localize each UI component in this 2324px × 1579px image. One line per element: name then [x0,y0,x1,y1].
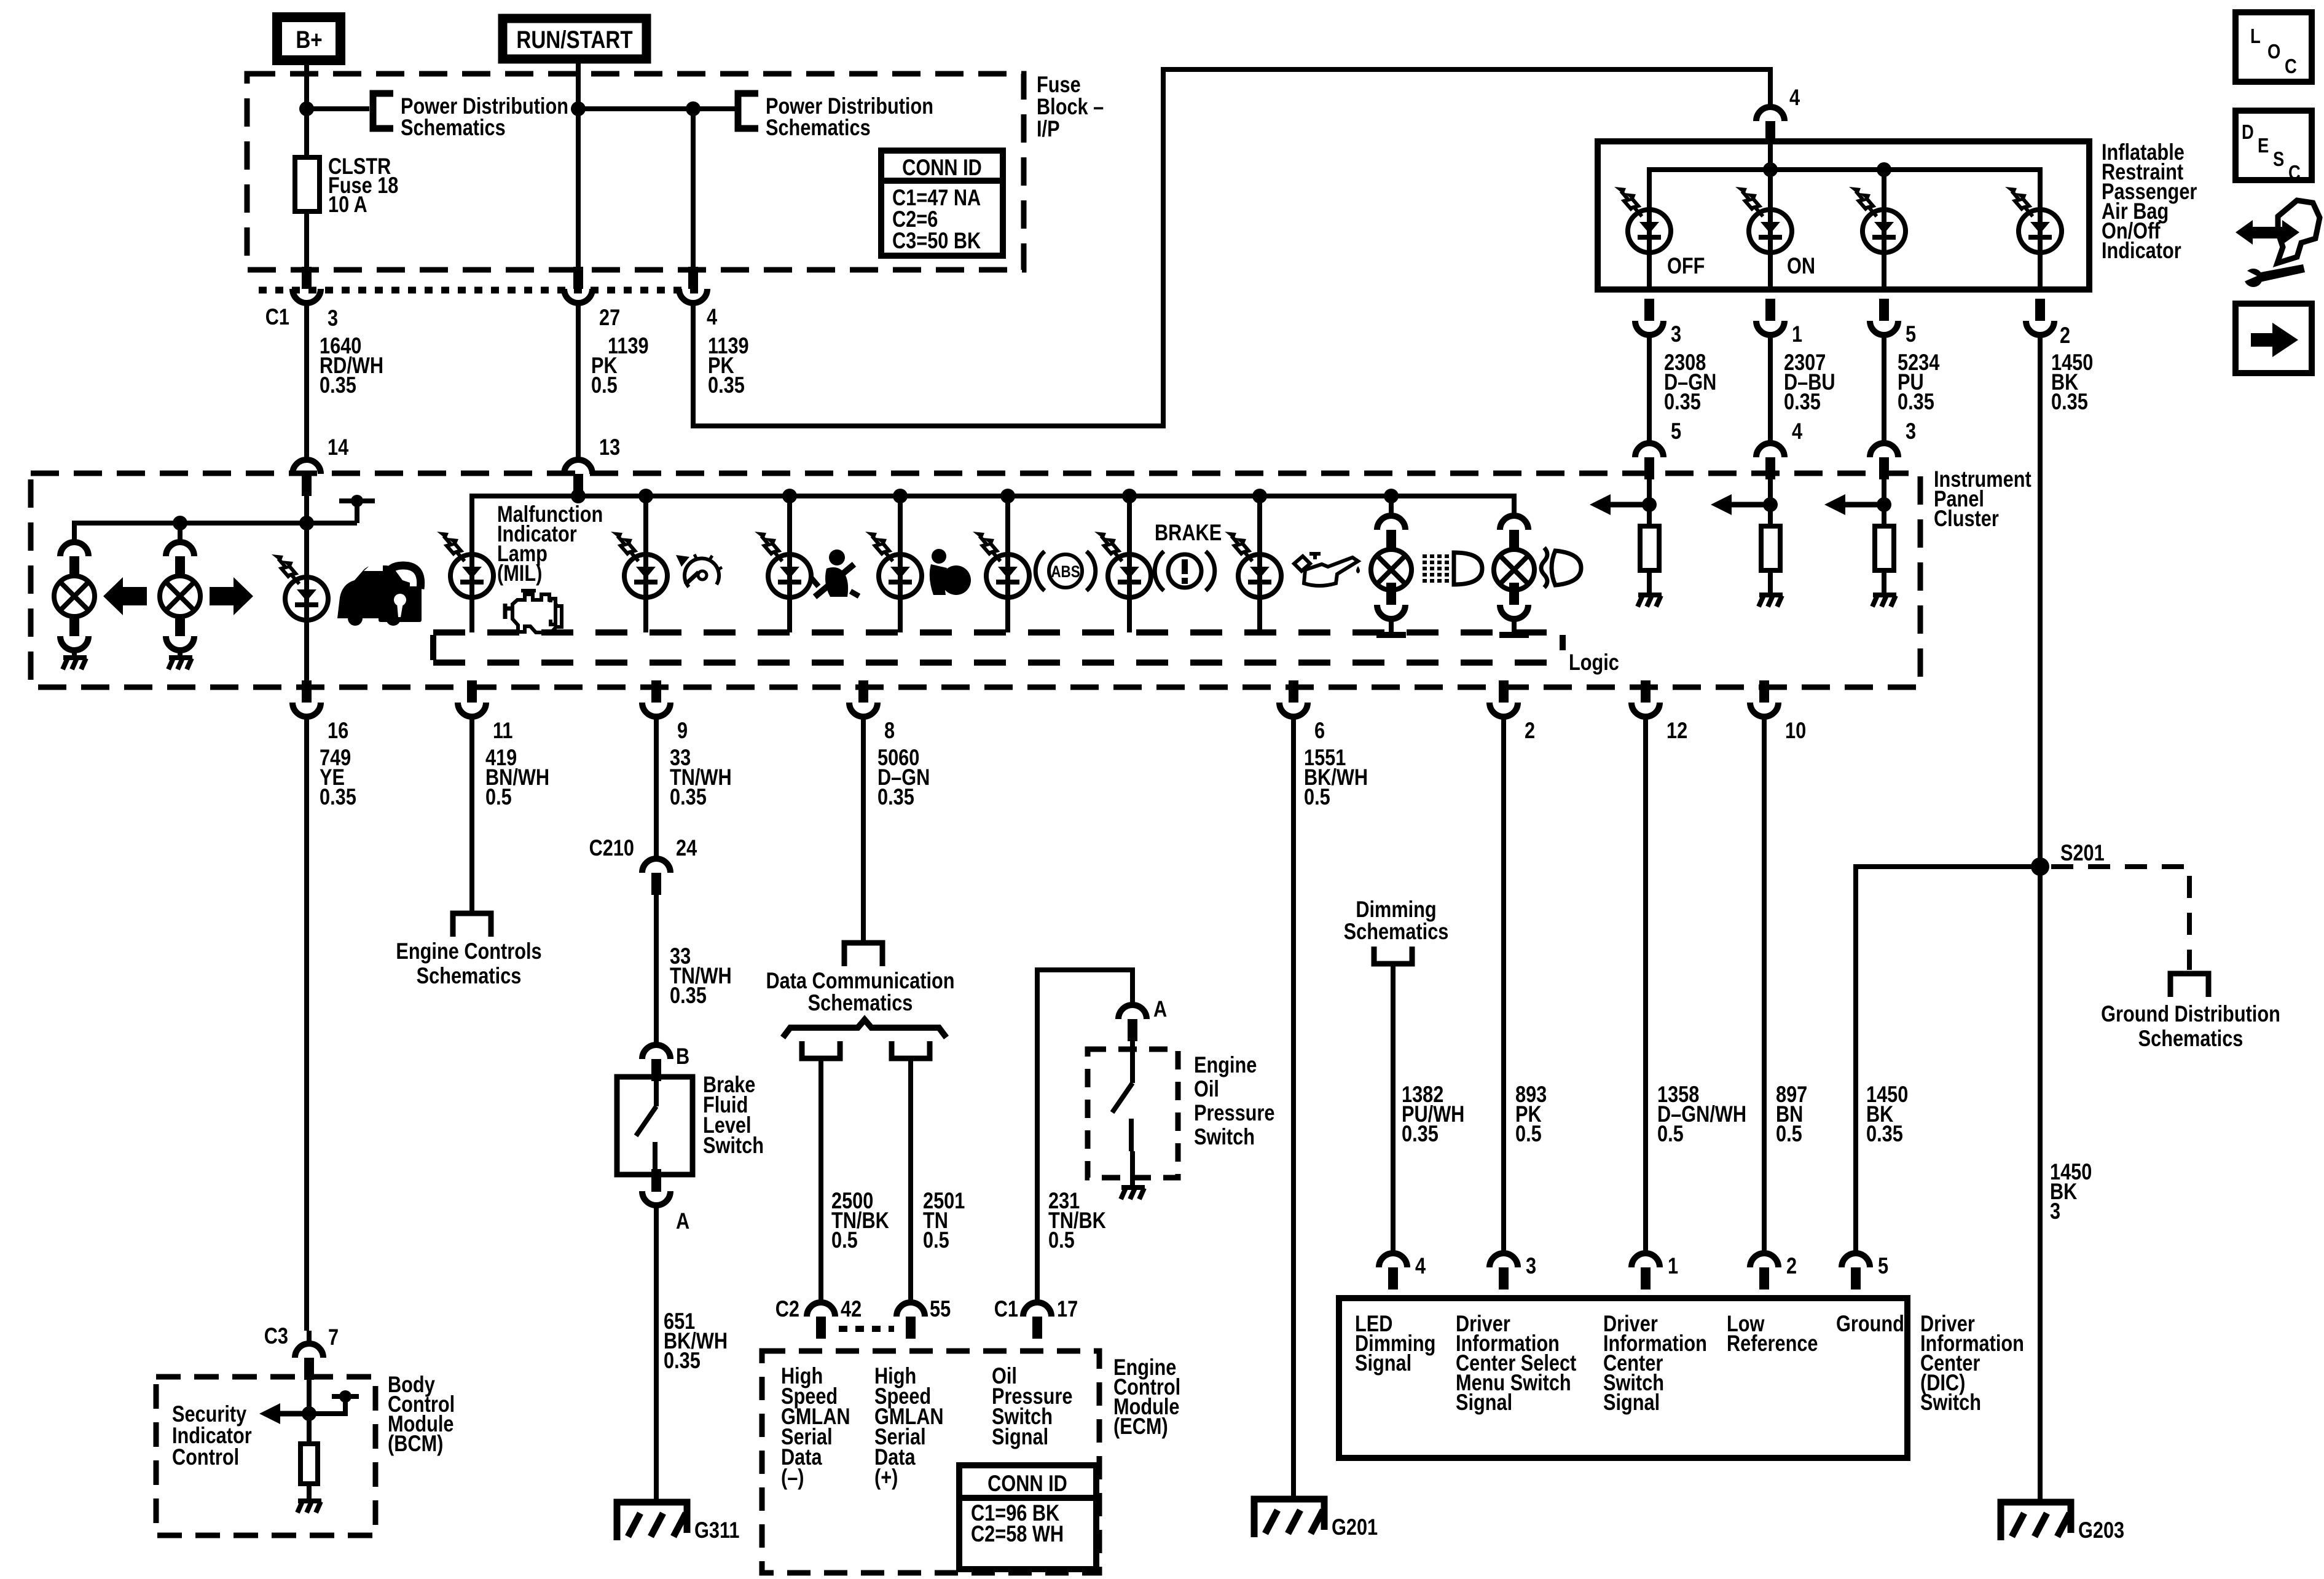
connector: air bag indicator pin 2 [2026,299,2054,335]
label: wire 1358 D-GN/WH 0.5 [1657,1082,1746,1146]
svg-text:8: 8 [884,718,895,743]
connector: cluster pin 14 [292,460,321,496]
label: High Speed GMLAN Serial Data (+) [874,1363,944,1490]
label: High Speed GMLAN Serial Data (-) [781,1363,850,1490]
svg-text:4: 4 [1789,85,1800,110]
wire: ON LED to pin 1 [1768,210,1773,289]
svg-text:Control: Control [172,1444,239,1470]
connector: engine oil pressure switch pin A [1118,1005,1147,1041]
svg-text:4: 4 [1792,419,1802,444]
label: Dimming Schematics [1344,897,1449,944]
wire: cluster air bag input 2 [1768,479,1773,526]
svg-text:4: 4 [707,304,717,329]
label: wire 33 TN/WH 0.35 (lower) [670,943,732,1008]
svg-text:2: 2 [1786,1253,1797,1278]
svg-text:24: 24 [676,835,697,860]
signal arrow (left): to logic 1 [1590,494,1649,515]
svg-text:L: L [2250,26,2261,48]
svg-text:0.5: 0.5 [1776,1121,1802,1146]
svg-text:C2=58 WH: C2=58 WH [971,1521,1064,1546]
wire: 1382 PU/WH 0.35 to DIC 4 [1391,964,1396,1254]
icon: vehicle with padlock (security) [337,562,422,626]
svg-text:B: B [676,1044,689,1069]
wire: LED3 to pin 5 [1882,210,1886,289]
svg-text:2: 2 [2060,323,2070,348]
ground G201 [1254,1499,1324,1537]
wire: right turn bulb to ground [178,650,183,658]
svg-text:12: 12 [1666,718,1687,743]
svg-text:0.5: 0.5 [1048,1227,1075,1253]
wire: OFF LED to pin 3 [1647,210,1652,289]
svg-text:0.5: 0.5 [1304,784,1330,809]
lamp: park lamp indicator bulb [1371,549,1411,590]
svg-text:3: 3 [1906,419,1916,444]
label: Instrument Panel Cluster [1934,467,2032,531]
label: DIC Switch Signal [1603,1311,1707,1415]
label: Fuse Block - I/P [1037,72,1104,141]
connector: cluster pin 10 [1750,680,1778,717]
svg-text:Engine: Engine [1194,1052,1257,1077]
connector: fuse block pin 27 [564,267,592,303]
connector: ECM connector C2 pin 42 [807,1302,835,1339]
label: Malfunction Indicator Lamp (MIL) [497,502,603,586]
svg-text:E: E [2258,135,2269,157]
junction: internal net stub [351,495,363,507]
wire: turn signal feed bus [74,501,357,542]
wire: park lamp to logic [1389,619,1394,632]
icon: oil can [1294,554,1360,586]
svg-text:S: S [2273,149,2284,171]
LED: gauge warning LED [611,532,667,597]
connector: cluster pin 13 [564,460,592,496]
svg-text:Schematics: Schematics [808,990,913,1015]
connector: air bag indicator pin 1 [1756,299,1784,335]
wire: fuse block pin 4 feed down [691,109,696,270]
Instrument Panel Cluster dashed box [31,473,1920,687]
connector: cluster pin 9 [642,680,670,717]
wire: 2307 D-BU to cluster 4 [1768,335,1773,444]
ground (internal): right turn bulb [168,658,192,669]
wire: brake branch [1127,496,1132,632]
svg-text:Signal: Signal [1603,1390,1660,1415]
connector line C2 (dotted) [839,1326,894,1332]
label: wire 2500 TN/BK 0.5 [831,1188,889,1253]
label: wire 5234 PU 0.35 [1898,350,1939,414]
icon: left turn arrow [103,577,147,615]
svg-text:0.35: 0.35 [1784,389,1821,414]
svg-text:0.35: 0.35 [670,784,707,809]
svg-text:Switch: Switch [1194,1124,1255,1149]
cluster pin 10 stub [1759,680,1769,703]
resistor: BCM pull-down [300,1444,318,1484]
svg-text:G201: G201 [1332,1514,1378,1540]
off-page bracket: Data Communication Schematics [844,943,882,966]
svg-text:Signal: Signal [992,1424,1048,1449]
wire: 1450 BK to S201 [2038,335,2043,867]
cluster pin 6 stub [1289,680,1298,703]
Engine Oil Pressure Switch dashed box [1088,1049,1178,1178]
label: Oil Pressure Switch Signal [992,1363,1072,1449]
wire: oil pressure branch [1257,496,1262,632]
svg-text:Schematics: Schematics [766,115,871,140]
wire: 893 PK 0.5 (cluster 2 to DIC 3) [1501,717,1506,1254]
svg-text:CONN ID: CONN ID [987,1471,1067,1496]
off-page bracket: Power Distribution Schematics (right) [738,93,758,128]
wire: 2501 TN 0.5 to ECM C2-55 [908,1058,913,1304]
svg-text:C210: C210 [589,835,634,860]
ground (internal): resistor 2 [1759,595,1783,607]
cluster pin 11 stub [467,680,477,703]
connector: cluster pin 16 [292,680,321,717]
label: wire 419 BN/WH 0.5 [485,745,549,809]
svg-text:10: 10 [1785,718,1806,743]
icon box: forward arrow [2236,304,2312,373]
svg-text:5: 5 [1878,1253,1888,1278]
label: CLSTR Fuse 18 10 A [328,154,398,217]
wire: seat belt branch [787,496,792,632]
svg-text:(ECM): (ECM) [1113,1414,1168,1439]
connector: DIC pin 1 [1631,1253,1660,1290]
ground (internal): BCM [297,1501,321,1513]
brace: data communication split [783,1020,946,1038]
logic boundary (lower dashed) [433,660,1560,666]
icon: air bag [930,549,971,595]
wire: 1450 BK 3 (S201 to G203) [2038,867,2043,1502]
wire: 651 BK/WH 0.35 to G311 [654,1205,659,1502]
svg-text:13: 13 [599,435,620,460]
label: Inflatable Restraint Passenger Air Bag On/Off Indicator [2102,140,2197,263]
label: wire 1551 BK/WH 0.5 [1304,745,1368,809]
label: wire 1450 BK 0.35 (DIC) [1866,1082,1908,1146]
svg-text:Cluster: Cluster [1934,506,1999,531]
connector: cluster pin 12 [1631,680,1660,717]
junction: bus tap x=2264 [1384,489,1399,503]
svg-text:0.35: 0.35 [1866,1121,1903,1146]
off-page bracket: GMLAN serial data (-) source [802,1041,840,1058]
wire: headlamp to logic [1512,619,1517,632]
label: wire 1382 PU/WH 0.35 [1402,1082,1464,1146]
wire: resistor 2 to ground [1768,570,1773,594]
label: wire 651 BK/WH 0.35 [664,1309,728,1373]
svg-text:Ground Distribution: Ground Distribution [2101,1001,2280,1026]
wire: MIL LED to logic [469,554,474,632]
wire: ABS branch [1005,496,1010,632]
svg-text:14: 14 [328,435,348,460]
svg-text:0.5: 0.5 [591,372,618,398]
svg-text:Engine Controls: Engine Controls [396,939,541,964]
svg-text:0.5: 0.5 [1515,1121,1542,1146]
svg-text:B+: B+ [296,26,322,53]
power feed box B+ [277,17,340,60]
wire: resistor 3 to ground [1882,570,1886,594]
connector: DIC pin 3 [1490,1253,1518,1290]
connector: ECM connector C1 pin 17 [1023,1302,1051,1339]
connector: ECM connector C2 pin 55 [897,1302,925,1339]
svg-text:C: C [2285,56,2297,78]
label: wire 1139 PK 0.5 [591,333,649,398]
svg-text:0.5: 0.5 [831,1227,858,1253]
signal arrow (left): to logic 3 [1824,494,1884,515]
wire: left turn bulb to ground [72,650,77,658]
connector: left turn bulb socket bottom [60,614,88,650]
svg-text:0.35: 0.35 [320,372,356,398]
connector: cluster pin 4 [1756,443,1784,479]
ground (internal): resistor 1 [1638,595,1662,607]
label: Driver Information Center (DIC) Switch [1920,1311,2024,1415]
wire: security indicator branch [304,496,309,682]
junction: bus tap third LED [1877,162,1891,177]
svg-text:Signal: Signal [1355,1350,1411,1376]
Brake Fluid Level Switch box [617,1077,693,1175]
connector: park lamp socket bottom [1377,583,1405,619]
svg-text:0.35: 0.35 [2051,389,2088,414]
svg-text:Schematics: Schematics [2138,1026,2244,1051]
cluster pin 9 stub [651,680,661,703]
internal net stub (BCM) [332,1394,359,1399]
junction: tap resistor circuit 3 [1877,497,1891,512]
svg-text:2: 2 [1525,718,1535,743]
label: Power Distribution Schematics (left) [401,93,568,140]
Inflatable Restraint Passenger Air Bag On/Off Indicator box [1598,141,2089,289]
svg-text:0.35: 0.35 [664,1348,701,1373]
junction: RUN/START tap [571,101,586,116]
svg-text:0.35: 0.35 [1402,1121,1439,1146]
svg-text:5: 5 [1906,321,1916,347]
off-page bracket: Engine Controls Schematics [453,913,491,937]
svg-text:Reference: Reference [1727,1331,1818,1356]
connector: air bag indicator pin 5 [1870,299,1898,335]
label: Data Communication Schematics [766,968,954,1015]
svg-text:RUN/START: RUN/START [516,26,633,53]
label: wire 5060 D-GN 0.35 [877,745,930,809]
connector: cluster pin 2 [1490,680,1518,717]
icon: right turn arrow [210,577,253,615]
svg-text:3: 3 [2050,1199,2060,1224]
svg-text:C3: C3 [264,1323,288,1349]
wire: BCM internal stub [309,1399,345,1414]
wire: air bag branch [898,496,903,632]
label: wire 1450 BK 0.35 (indicator) [2051,350,2093,414]
icon: service/navigation arrows with vehicle door and wrench [2236,200,2320,287]
svg-text:3: 3 [328,305,338,331]
wire: right turn branch [178,523,183,542]
connector: right turn bulb socket bottom [166,614,194,650]
label: Security Indicator Control [172,1401,252,1470]
connector: fuse block pin 4 [679,267,707,303]
svg-text:11: 11 [493,718,512,743]
ground (internal): resistor 3 [1872,595,1896,607]
svg-text:C: C [2288,162,2301,184]
svg-text:6: 6 [1314,718,1325,743]
connector: brake fluid level switch pin B [642,1045,670,1081]
LED: air bag OFF LED [1614,187,1671,253]
wire: 2308 D-GN to cluster 5 [1647,335,1652,444]
brake switch pin A stub [651,1175,661,1192]
cluster pin 12 stub [1641,680,1651,703]
connector: C210 pin 24 (inline) [642,859,670,895]
switch contacts (oil pressure) [1112,1041,1133,1186]
wire: 419 BN/WH 0.5 to engine controls [469,717,474,913]
svg-text:3: 3 [1671,321,1681,347]
svg-text:10 A: 10 A [328,192,367,217]
wire: 1139 PK 0.35 routing to air bag indicator [693,69,1770,426]
switch contacts (brake fluid level) [636,1077,656,1175]
wire: 1450 BK 0.35 (S201 to DIC 5) [1856,867,2040,1254]
park lamp logic termination [1376,632,1406,638]
connector: BCM connector C3 pin 7 [295,1344,323,1380]
svg-text:Pressure: Pressure [1194,1100,1274,1125]
svg-text:C2: C2 [775,1296,799,1321]
resistor: cluster pull-down 2 [1761,526,1780,570]
LED: brake warning LED [1094,532,1151,597]
connector: cluster pin 5 [1635,443,1663,479]
ground G203 [2001,1502,2071,1540]
wire: 897 BN 0.5 (cluster 10 to DIC 2) [1762,717,1767,1254]
Driver Information Center (DIC) Switch box [1339,1298,1907,1458]
off-page bracket: GMLAN serial data (+) source [892,1041,930,1058]
svg-text:1: 1 [1668,1253,1678,1278]
icon: seat belt [811,549,859,597]
connector: C1 pin 3 (fuse block output) [292,267,321,303]
svg-text:S201: S201 [2060,840,2105,865]
ground G311 [617,1502,687,1540]
wire: 749 YE 0.35 (cluster 16 to BCM C3-7) [307,717,309,1344]
junction: bus tap x=941 [571,489,586,503]
svg-text:OFF: OFF [1667,253,1705,278]
Fuse Block - I/P dashed box [247,74,1024,270]
connector: headlamp socket top [1500,516,1528,552]
connector: DIC pin 2 [1750,1253,1778,1290]
junction: bus tap ON LED [1763,162,1778,177]
cluster pin 16 stub [302,680,312,703]
label: wire 1450 BK 3 [2050,1159,2092,1224]
junction: bus tap x=2050 [1252,489,1267,503]
junction: bus tap x=1051 [638,489,653,503]
junction: bus tap right turn [173,516,187,530]
wire: air bag indicator internal bus [1649,143,2040,210]
junction: bus tap security feed [299,516,314,530]
LED: security indicator LED [272,554,328,620]
svg-text:0.5: 0.5 [485,784,512,809]
CONN ID table (fuse block) [881,151,1003,256]
label: wire 231 TN/BK 0.5 [1048,1188,1106,1253]
svg-text:D: D [2242,122,2254,144]
label: Ground Distribution Schematics [2101,1001,2280,1051]
svg-text:3: 3 [1526,1253,1536,1278]
LED: malfunction indicator lamp (MIL) LED [437,532,493,597]
wire: 2500 TN/BK 0.5 to ECM C2-42 [819,1058,823,1304]
wire: indicator LED bus [472,496,1514,554]
label: Engine Oil Pressure Switch [1194,1052,1274,1149]
wire: RUN/START feed down [576,59,581,270]
label: Low Reference [1727,1311,1818,1356]
wire: 33 TN/WH 0.35 to brake fluid level switch [654,895,659,1046]
svg-text:(–): (–) [781,1465,804,1490]
wire: LED4 to pin 2 [2038,210,2043,289]
svg-text:Oil: Oil [1194,1076,1219,1101]
wire: park lamp feed [1389,496,1394,516]
label: Power Distribution Schematics (right) [766,93,933,140]
svg-text:0.35: 0.35 [1898,389,1934,414]
icon box: DESC [2236,111,2312,184]
headlamp logic termination [1499,632,1529,638]
junction: ignition feed tap for fuse block pin 4 [686,101,701,116]
svg-text:C1: C1 [265,304,289,329]
icon: engine (MIL) [505,591,562,632]
fuse CLSTR Fuse 18 10 A [295,157,320,211]
svg-text:Schematics: Schematics [401,115,506,140]
svg-text:BRAKE: BRAKE [1155,520,1222,545]
icon: front fog/park lamps [1423,553,1482,585]
junction: BCM internal node [339,1390,351,1403]
connector: DIC pin 5 [1842,1253,1870,1290]
svg-text:0.35: 0.35 [670,983,707,1008]
LED: air bag indicator LED 3 [1849,187,1906,253]
svg-text:Schematics: Schematics [417,963,522,988]
signal arrow (left): to logic 2 [1711,494,1770,515]
wire: 1139 PK 0.5 (27 to cluster 13) [576,303,581,461]
svg-text:0.35: 0.35 [1664,389,1701,414]
power feed box RUN/START [503,18,646,59]
wire: BCM input to junction [307,1380,312,1444]
label: wire 33 TN/WH 0.35 (upper) [670,745,732,809]
wire: cluster air bag input 3 [1882,479,1886,526]
junction: S201 splice [2031,857,2049,876]
svg-text:A: A [676,1208,689,1234]
label: Engine Controls Schematics [396,939,541,988]
connector: right turn bulb socket top [166,542,194,578]
svg-text:Schematics: Schematics [1344,919,1449,944]
label: wire 897 BN 0.5 [1776,1082,1807,1146]
svg-text:16: 16 [328,718,348,743]
label: wire 2501 TN 0.5 [923,1188,965,1253]
wire: 231 TN/BK 0.5 routing [1037,970,1133,1304]
lamp: left turn indicator bulb [54,576,95,616]
svg-text:Ground: Ground [1836,1311,1904,1336]
svg-text:Switch: Switch [703,1133,764,1158]
wire: 1640 RD/WH 0.35 (C1-3 to cluster 14) [304,303,309,461]
junction: bus tap x=1465 [893,489,908,503]
label: wire 1139 PK 0.35 [708,333,749,398]
svg-text:1: 1 [1792,321,1802,347]
svg-text:Indicator: Indicator [2102,238,2181,263]
svg-text:0.5: 0.5 [923,1227,949,1253]
svg-text:(BCM): (BCM) [388,1431,443,1456]
label: wire 749 YE 0.35 [320,745,356,809]
svg-text:0.35: 0.35 [320,784,356,809]
connector: air bag indicator pin 3 [1635,299,1663,335]
connector: DIC pin 4 [1379,1253,1407,1290]
icon: brake warning (!) [1155,551,1215,591]
connector: cluster pin 8 [849,680,877,717]
connector: cluster pin 11 [458,680,486,717]
label: Body Control Module (BCM) [388,1372,455,1456]
lamp: right turn indicator bulb [160,576,200,616]
icon: headlamp low beam [1541,548,1581,588]
connector: cluster pin 6 [1279,680,1308,717]
svg-text:(MIL): (MIL) [497,561,542,586]
connector: brake fluid level switch pin A [642,1169,670,1205]
label: wire 2307 D-BU 0.35 [1784,350,1835,414]
ground (internal): left turn bulb [63,658,87,669]
svg-text:42: 42 [841,1296,862,1321]
svg-text:5: 5 [1671,419,1681,444]
svg-text:27: 27 [599,305,620,330]
svg-text:9: 9 [677,718,688,743]
wire: 5234 PU to cluster 3 [1882,335,1886,444]
svg-text:Logic: Logic [1569,650,1619,675]
label: Brake Fluid Level Switch [703,1072,764,1158]
